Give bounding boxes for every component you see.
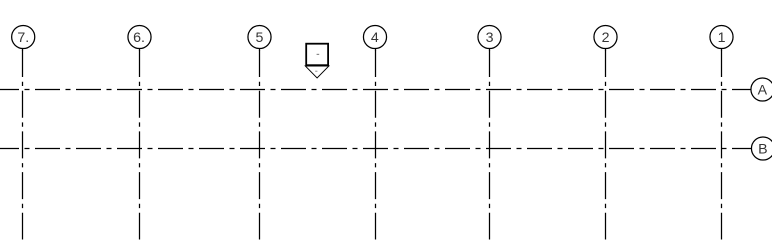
grid bubble 7 bbox=[12, 25, 35, 48]
grid bubble 4 bbox=[363, 25, 386, 48]
grid bubble B bbox=[751, 137, 772, 160]
grid bubble A bbox=[751, 78, 772, 101]
grid line 5 (vertical dash-dot wire) bbox=[259, 49, 261, 240]
grid line 3 stub at bubble bbox=[489, 48, 491, 50]
grid line 1 (vertical dash-dot wire) bbox=[721, 49, 723, 240]
grid line 4 stub at bubble bbox=[375, 48, 377, 50]
svg-text:A: A bbox=[758, 82, 768, 98]
grid bubble 2 bbox=[594, 25, 617, 48]
svg-text:4: 4 bbox=[371, 30, 379, 46]
grid line 6 stub at bubble bbox=[139, 48, 141, 50]
grid bubble 1 bbox=[710, 25, 733, 48]
svg-text:6.: 6. bbox=[133, 30, 145, 46]
svg-text:5: 5 bbox=[255, 30, 263, 46]
grid line A (horizontal dash-dot wire) bbox=[0, 89, 751, 91]
grid line 5 stub at bubble bbox=[259, 48, 261, 50]
section head marker bbox=[305, 44, 329, 78]
grid line B (horizontal dash-dot wire) bbox=[0, 148, 751, 150]
section head body (square) bbox=[306, 44, 328, 65]
grid line 7 (vertical dash-dot wire) bbox=[22, 49, 24, 240]
tiny detail text mark in square bbox=[317, 54, 320, 55]
tiny detail text mark in triangle bbox=[315, 71, 317, 72]
svg-text:B: B bbox=[758, 141, 767, 157]
svg-text:1: 1 bbox=[718, 30, 726, 46]
grid bubble 6 bbox=[128, 25, 151, 48]
grid line 7 stub at bubble bbox=[22, 48, 24, 50]
grid line 1 stub at bubble bbox=[721, 48, 723, 50]
grid bubble 5 bbox=[248, 25, 271, 48]
grid line 2 stub at bubble bbox=[605, 48, 607, 50]
section head tail (triangle) bbox=[305, 66, 329, 78]
grid line 3 (vertical dash-dot wire) bbox=[489, 49, 491, 240]
grid line 4 (vertical dash-dot wire) bbox=[375, 49, 377, 240]
svg-text:7.: 7. bbox=[17, 30, 29, 46]
grid bubble 3 bbox=[478, 25, 501, 48]
grid line 2 (vertical dash-dot wire) bbox=[605, 49, 607, 240]
grid line 6 (vertical dash-dot wire) bbox=[139, 49, 141, 240]
svg-text:2: 2 bbox=[602, 30, 610, 46]
svg-text:3: 3 bbox=[486, 30, 494, 46]
